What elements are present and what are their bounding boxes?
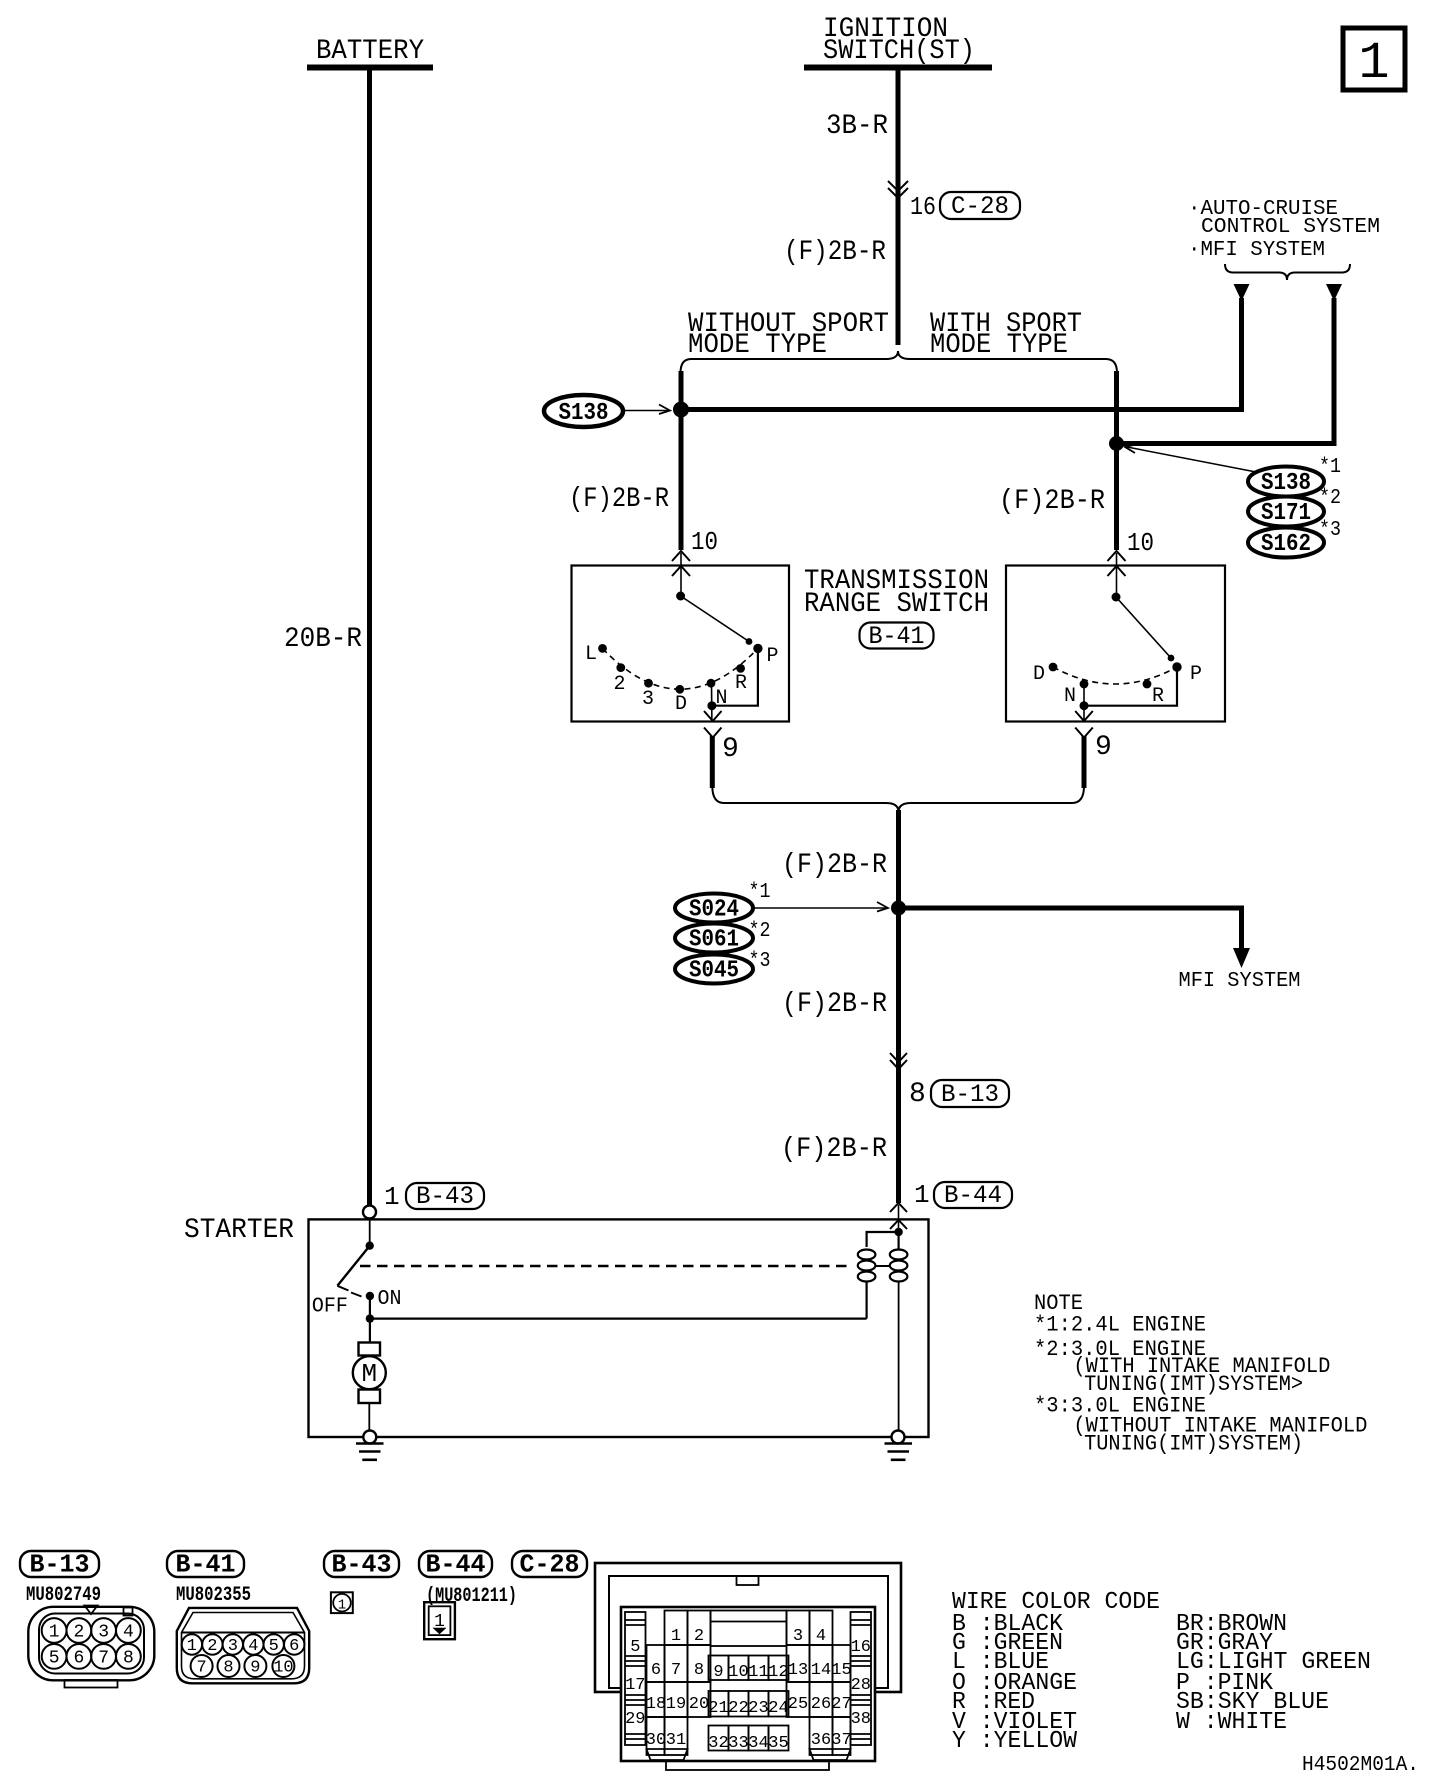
C-28 pins 18-27 — [646, 1695, 852, 1718]
splice S061 (*2) — [675, 924, 753, 954]
splice S138 (right, *1) — [1248, 467, 1324, 498]
svg-text:5: 5 — [49, 1648, 60, 1668]
connector B-41 cavities 1-10 — [182, 1634, 305, 1677]
svg-text:C-28: C-28 — [520, 1551, 580, 1580]
battery bus bar — [307, 65, 433, 71]
junction node merged wire — [891, 901, 906, 916]
svg-text:4: 4 — [123, 1623, 134, 1643]
wire merged output down to starter — [896, 810, 901, 1203]
svg-text:S138: S138 — [559, 400, 609, 427]
svg-text:H4502M01A.: H4502M01A. — [1302, 1753, 1419, 1777]
svg-text:3: 3 — [793, 1627, 803, 1646]
starter switch pivot node — [366, 1242, 374, 1250]
svg-text:26: 26 — [811, 1695, 831, 1714]
C-28 cell grid row4 (30,31,32-35,36,37) — [647, 1717, 851, 1755]
svg-text:37: 37 — [831, 1731, 851, 1750]
C-28 cell grid row2 (6,7,8,9-12,13,14,15) — [647, 1645, 851, 1682]
svg-text:S061: S061 — [689, 927, 739, 954]
svg-text:19: 19 — [666, 1695, 686, 1714]
wire branch left (without sport) — [679, 371, 684, 550]
svg-text:25: 25 — [788, 1695, 808, 1714]
transmission range switch box (without sport) — [572, 566, 790, 722]
note marks *1 *2 *3 left — [749, 880, 771, 973]
motor M starter — [353, 1343, 386, 1404]
svg-text:(F)2B-R: (F)2B-R — [782, 989, 887, 1020]
starter box — [309, 1219, 929, 1437]
svg-text:10: 10 — [1127, 528, 1154, 558]
svg-text:10: 10 — [691, 527, 718, 557]
left switch position arc (dashed) — [603, 648, 758, 689]
svg-text:S024: S024 — [689, 897, 739, 924]
connector label B-13 — [931, 1080, 1009, 1109]
left switch position letters — [585, 643, 779, 716]
svg-text:2: 2 — [694, 1627, 704, 1646]
svg-text:B-41: B-41 — [869, 622, 925, 651]
svg-text:*1:2.4L ENGINE: *1:2.4L ENGINE — [1034, 1313, 1206, 1338]
connector label B-13 bottom — [20, 1551, 99, 1580]
svg-text:20: 20 — [689, 1695, 709, 1714]
right switch N junction node — [1080, 701, 1089, 710]
connector label B-44 bottom — [419, 1551, 492, 1580]
right switch arm to P — [1116, 597, 1171, 658]
svg-text:5: 5 — [630, 1638, 640, 1657]
connector chevrons into left switch pin 10 — [672, 551, 690, 596]
splice S162 (*3) — [1248, 528, 1324, 559]
svg-text:9: 9 — [713, 1663, 723, 1682]
svg-text:8: 8 — [223, 1659, 233, 1678]
label with sport mode type — [930, 309, 1082, 361]
svg-text:2: 2 — [207, 1637, 217, 1656]
svg-text:MU802749: MU802749 — [26, 1584, 101, 1607]
svg-text:34: 34 — [748, 1734, 768, 1753]
note marks *1 *2 *3 right — [1319, 455, 1341, 542]
label without sport mode type — [688, 309, 889, 361]
auto-cruise / mfi system note — [1188, 197, 1380, 262]
svg-text:MU802355: MU802355 — [176, 1584, 251, 1607]
junction node left branch — [673, 402, 689, 418]
svg-text:12: 12 — [768, 1663, 788, 1682]
svg-text:7: 7 — [98, 1648, 109, 1668]
terminal circle motor ground — [363, 1431, 376, 1444]
svg-text:22: 22 — [728, 1699, 748, 1718]
wire bus to mfi — [1117, 441, 1335, 446]
connector label C-28 — [940, 192, 1020, 221]
svg-text:R: R — [1152, 685, 1164, 708]
svg-text:*3: *3 — [1319, 518, 1341, 542]
solenoid pull-in coil — [858, 1250, 876, 1319]
left switch arm contact dot — [746, 638, 753, 645]
C-28 pins 5 17 29 — [625, 1638, 645, 1729]
svg-text:CONTROL SYSTEM: CONTROL SYSTEM — [1201, 215, 1380, 239]
svg-text:7: 7 — [671, 1661, 681, 1680]
wire ON contact down — [369, 1296, 371, 1319]
svg-text:3: 3 — [228, 1637, 238, 1656]
svg-text:6: 6 — [289, 1637, 299, 1656]
ignition switch bus bar — [804, 65, 992, 71]
svg-text:9: 9 — [1095, 732, 1112, 763]
svg-text:W :WHITE: W :WHITE — [1176, 1709, 1287, 1736]
page number box 1 — [1343, 28, 1405, 93]
svg-text:S045: S045 — [689, 958, 739, 985]
connector B-44 terminal symbol — [424, 1602, 455, 1639]
left switch arm to P — [681, 596, 749, 642]
connector label B-43 bottom — [324, 1551, 399, 1580]
connector chevrons out of right switch pin 9 — [1075, 711, 1093, 738]
wire terminal to switch pivot — [369, 1219, 371, 1246]
wire branch to MFI system — [899, 908, 1242, 950]
right switch contact dots D N R P — [1049, 662, 1182, 688]
connector label B-43 — [406, 1182, 484, 1211]
svg-text:10: 10 — [728, 1663, 748, 1682]
svg-text:D: D — [1033, 663, 1045, 686]
svg-text:5: 5 — [269, 1637, 279, 1656]
svg-text:23: 23 — [748, 1699, 768, 1718]
svg-text:MFI SYSTEM: MFI SYSTEM — [1179, 969, 1301, 993]
svg-text:35: 35 — [768, 1734, 788, 1753]
svg-text:*2: *2 — [749, 919, 771, 943]
svg-text:TUNING(IMT)SYSTEM): TUNING(IMT)SYSTEM) — [1084, 1432, 1303, 1457]
svg-text:SWITCH(ST): SWITCH(ST) — [823, 36, 975, 67]
svg-text:*1: *1 — [1319, 455, 1341, 479]
svg-text:15: 15 — [831, 1661, 851, 1680]
svg-text:(F)2B-R: (F)2B-R — [782, 850, 887, 881]
left switch pivot node — [676, 592, 685, 601]
svg-text:S162: S162 — [1261, 531, 1311, 558]
connector B-41 face — [177, 1608, 309, 1683]
svg-text:11: 11 — [748, 1663, 768, 1682]
svg-text:30: 30 — [646, 1731, 666, 1750]
svg-text:R: R — [735, 672, 747, 695]
wire ignition ST vertical — [896, 70, 901, 345]
svg-text:3B-R: 3B-R — [826, 111, 888, 142]
wire left switch output — [710, 736, 715, 788]
dash between blade and ON contact — [351, 1293, 362, 1297]
left switch N junction node — [707, 701, 716, 710]
terminal circle pin 1 B-43 — [363, 1206, 376, 1219]
ON contact node — [366, 1292, 374, 1300]
C-28 cell grid row1 (1,2,3,4) — [665, 1611, 833, 1647]
svg-text:B-41: B-41 — [176, 1551, 236, 1580]
connector C-28 housing — [595, 1563, 901, 1692]
svg-text:B-44: B-44 — [944, 1181, 1002, 1210]
splice S138 (left) — [544, 395, 623, 427]
svg-text:6: 6 — [73, 1648, 84, 1668]
svg-text:(F)2B-R: (F)2B-R — [999, 486, 1105, 517]
svg-text:·MFI SYSTEM: ·MFI SYSTEM — [1188, 238, 1325, 262]
svg-text:1: 1 — [187, 1637, 197, 1656]
svg-text:MODE TYPE: MODE TYPE — [688, 330, 827, 361]
wire motor to ground terminal — [368, 1403, 370, 1431]
svg-text:ON: ON — [378, 1287, 402, 1311]
left switch contact dots L 2 3 D N R P — [598, 644, 763, 694]
wire junction down to motor — [369, 1319, 371, 1343]
svg-text:9: 9 — [722, 734, 739, 765]
NOTE block — [1034, 1291, 1367, 1457]
connector pass-through chevron C-28 — [888, 181, 908, 198]
connector label B-44 — [934, 1181, 1012, 1210]
svg-text:D: D — [675, 693, 687, 716]
C-28 pins 1 2 3 4 — [671, 1627, 826, 1646]
svg-text:8: 8 — [909, 1079, 926, 1110]
connector B-13 pin numbers — [49, 1623, 134, 1669]
arrow from splice ovals to right junction — [1125, 444, 1256, 472]
C-28 right edge column (16,28,38) — [851, 1612, 872, 1745]
junction node motor/coil — [366, 1314, 374, 1322]
svg-text:20B-R: 20B-R — [284, 624, 362, 655]
svg-text:38: 38 — [851, 1710, 871, 1729]
svg-text:OFF: OFF — [312, 1295, 348, 1319]
svg-text:1: 1 — [671, 1627, 681, 1646]
connector chevrons into starter pin 1 (B-44) — [890, 1203, 907, 1232]
svg-text:31: 31 — [666, 1731, 686, 1750]
svg-text:29: 29 — [625, 1710, 645, 1729]
svg-text:P: P — [767, 645, 779, 668]
svg-text:RANGE SWITCH: RANGE SWITCH — [804, 589, 989, 620]
svg-text:B-43: B-43 — [416, 1182, 474, 1211]
svg-text:14: 14 — [811, 1661, 831, 1680]
junction node coil top — [894, 1228, 902, 1236]
svg-text:18: 18 — [646, 1695, 666, 1714]
right switch arm contact dot — [1168, 655, 1175, 662]
svg-text:28: 28 — [851, 1676, 871, 1695]
svg-text:21: 21 — [708, 1699, 728, 1718]
connector label B-41 — [860, 622, 934, 651]
svg-text:BATTERY: BATTERY — [316, 36, 424, 67]
wire junction to pull-in coil — [370, 1317, 867, 1319]
ignition switch label — [823, 14, 975, 67]
svg-text:1: 1 — [338, 1598, 346, 1614]
svg-text:9: 9 — [250, 1659, 260, 1678]
svg-text:*2: *2 — [1319, 486, 1341, 510]
wire between coils — [875, 1265, 890, 1267]
svg-text:Y :YELLOW: Y :YELLOW — [952, 1728, 1077, 1755]
C-28 pins 6-15 — [651, 1661, 852, 1682]
brace splitting sport mode types — [681, 351, 1118, 373]
svg-text:3: 3 — [98, 1623, 109, 1643]
right switch position arc (dashed) — [1053, 667, 1177, 684]
splice S171 (*2) — [1248, 497, 1324, 528]
svg-text:3: 3 — [642, 688, 654, 711]
svg-text:B-13: B-13 — [30, 1551, 90, 1580]
connector C-28 pin block — [621, 1607, 875, 1761]
arrow from auto-cruise system (left) — [1234, 284, 1250, 412]
brace merging switch outputs — [712, 786, 1084, 812]
wire hold-in coil to ground terminal — [898, 1281, 900, 1431]
splice S024 (*1) — [675, 894, 753, 924]
svg-text:(F)2B-R: (F)2B-R — [781, 1134, 887, 1165]
connector B-13 cavities 1-8 — [42, 1618, 141, 1669]
svg-text:1: 1 — [384, 1182, 400, 1212]
right switch position letters — [1033, 663, 1202, 708]
mechanical link dashed line to solenoid — [360, 1265, 853, 1267]
svg-text:S138: S138 — [1261, 470, 1311, 497]
wire branch right (with sport) — [1114, 371, 1119, 550]
svg-text:N: N — [1064, 685, 1076, 708]
connector chevrons into right switch pin 10 — [1108, 551, 1126, 597]
svg-text:*1: *1 — [749, 880, 771, 904]
arrowhead to MFI system — [1233, 948, 1250, 968]
svg-text:36: 36 — [811, 1731, 831, 1750]
svg-text:8: 8 — [123, 1648, 134, 1668]
connector label C-28 bottom — [512, 1551, 587, 1580]
connector chevrons out of left switch pin 9 — [704, 711, 722, 738]
svg-text:16: 16 — [851, 1638, 871, 1657]
svg-text:1: 1 — [1358, 34, 1389, 93]
wire color code legend — [952, 1589, 1371, 1755]
connector B-41 pin numbers — [187, 1637, 300, 1678]
svg-text:(F)2B-R: (F)2B-R — [784, 237, 886, 268]
C-28 left edge column (5,17,29) — [625, 1612, 646, 1745]
svg-text:33: 33 — [728, 1734, 748, 1753]
C-28 cell grid row3 (18,19,20,21-24,25,26,27) — [647, 1682, 851, 1717]
svg-text:13: 13 — [788, 1661, 808, 1680]
svg-text:27: 27 — [831, 1695, 851, 1714]
svg-text:(MU801211): (MU801211) — [426, 1585, 517, 1608]
wire right switch output — [1082, 736, 1087, 788]
brace under auto-cruise note — [1225, 264, 1350, 280]
arrow from S138 to junction — [624, 405, 670, 415]
arrow from mfi system (right) — [1326, 284, 1342, 446]
svg-text:C-28: C-28 — [951, 192, 1009, 221]
right switch wire N down — [1083, 684, 1085, 722]
arrow from splices to merged wire — [754, 902, 888, 912]
svg-text:(F)2B-R: (F)2B-R — [569, 484, 669, 515]
junction node right branch — [1109, 436, 1124, 451]
left switch wire N down — [711, 683, 713, 722]
starter switch blade (to OFF) — [337, 1246, 369, 1291]
svg-text:24: 24 — [768, 1699, 788, 1718]
ground symbol left — [356, 1444, 384, 1460]
svg-text:B-43: B-43 — [332, 1551, 392, 1580]
svg-text:STARTER: STARTER — [184, 1215, 294, 1246]
svg-text:P: P — [1190, 663, 1202, 686]
svg-text:2: 2 — [73, 1623, 84, 1643]
solenoid hold-in coil — [890, 1232, 908, 1282]
svg-text:6: 6 — [651, 1661, 661, 1680]
C-28 pins 16 28 38 — [851, 1638, 871, 1729]
svg-text:4: 4 — [816, 1627, 826, 1646]
svg-text:*3: *3 — [749, 949, 771, 973]
terminal circle coil ground — [892, 1431, 905, 1444]
connector B-43 terminal symbol — [331, 1592, 353, 1613]
transmission range switch label — [804, 566, 989, 620]
svg-text:B-13: B-13 — [941, 1080, 999, 1109]
svg-text:MODE TYPE: MODE TYPE — [930, 330, 1068, 361]
svg-text:1: 1 — [914, 1180, 930, 1210]
svg-text:8: 8 — [694, 1661, 704, 1680]
transmission range switch box (with sport) — [1006, 566, 1225, 722]
svg-text:17: 17 — [625, 1676, 645, 1695]
svg-text:10: 10 — [273, 1659, 293, 1678]
svg-text:32: 32 — [708, 1734, 728, 1753]
right switch wire P to N junction — [1084, 667, 1177, 706]
connector B-13 face — [28, 1606, 154, 1688]
splice S045 (*3) — [675, 955, 753, 985]
right switch pivot node — [1112, 593, 1121, 602]
ground symbol right — [885, 1444, 913, 1460]
svg-text:S171: S171 — [1261, 500, 1311, 527]
svg-text:2: 2 — [614, 673, 626, 696]
svg-text:M: M — [361, 1359, 377, 1389]
connector pass-through chevron B-13 — [890, 1053, 907, 1069]
connector label B-41 bottom — [167, 1551, 244, 1580]
svg-text:1: 1 — [49, 1623, 60, 1643]
svg-text:B-44: B-44 — [426, 1551, 486, 1580]
svg-text:L: L — [585, 643, 597, 666]
wire battery 20B-R vertical — [367, 70, 372, 1206]
C-28 mounting feet — [647, 1749, 851, 1770]
svg-text:16: 16 — [910, 192, 936, 222]
C-28 pins 30-37 — [646, 1731, 852, 1753]
svg-text:4: 4 — [248, 1637, 258, 1656]
wire bus to auto-cruise — [681, 407, 1242, 412]
svg-text:7: 7 — [196, 1659, 206, 1678]
left switch wire P to N junction — [712, 648, 758, 705]
wire coil top link — [867, 1232, 899, 1247]
